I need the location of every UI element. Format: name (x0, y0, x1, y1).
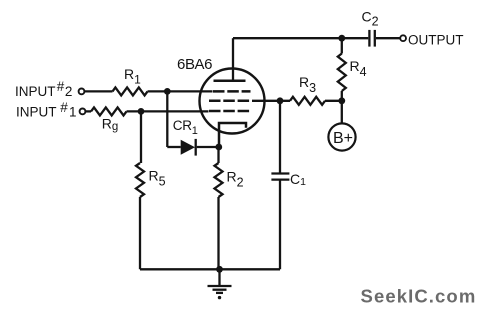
wire R3 to B+ node (325, 100, 342, 102)
node grid3 junction (138, 108, 145, 115)
wire ground rail (140, 268, 280, 270)
svg-text:B+: B+ (333, 130, 353, 147)
tube plate (214, 80, 246, 83)
diode CR1 (181, 140, 195, 155)
wire B+ lead (341, 101, 343, 124)
svg-text:OUTPUT: OUTPUT (408, 33, 464, 48)
tube grid2 (dashed) (209, 100, 249, 103)
node screen junction (277, 97, 284, 104)
node top junction (338, 35, 345, 42)
resistor R1 (113, 87, 148, 95)
wire C1 top lead (279, 101, 281, 174)
wire grid3 junction down to R5 (140, 111, 142, 163)
node cathode junction (215, 144, 222, 151)
wire top rail plate to C2 (233, 37, 368, 39)
terminal input1 (80, 109, 86, 115)
wire R4 bottom lead (341, 91, 343, 101)
tube cathode (219, 123, 246, 147)
resistor R2 (215, 163, 223, 197)
wire Rg to grid3 (127, 110, 209, 112)
ground (218, 269, 220, 286)
wire grid2 to screen node (252, 100, 290, 102)
wire R5 bottom to rail (139, 197, 141, 269)
node grid1 junction (164, 88, 171, 95)
node ground junction (216, 266, 223, 273)
capacitor C1 (271, 172, 289, 174)
wire input2 lead (85, 90, 113, 92)
wire R2 bottom to rail (217, 197, 219, 269)
resistor R4 (338, 54, 346, 92)
wire R1 to grid1 (148, 90, 213, 92)
wire CR1 anode lead (167, 146, 180, 148)
capacitor C2 (368, 30, 370, 47)
wire input1 lead (86, 110, 92, 112)
tube 6BA6 envelope (200, 69, 265, 134)
tube grid1 (dashed) (213, 90, 251, 93)
wire CR1 cathode lead (197, 146, 219, 148)
svg-text:6BA6: 6BA6 (177, 56, 213, 73)
svg-text:SeekIC.com: SeekIC.com (361, 285, 477, 306)
wire C2 to output (376, 37, 400, 39)
wire plate lead (232, 38, 234, 81)
node B+ junction (338, 97, 345, 104)
wire grid1 junction down to CR1 anode (166, 91, 168, 147)
wire cathode junction down to R2 (217, 147, 219, 163)
terminal input2 (79, 89, 85, 95)
resistor Rg (91, 107, 127, 115)
resistor R3 (290, 97, 325, 105)
tube grid3 (dashed) (209, 110, 249, 113)
wire C1 bottom lead (279, 180, 281, 270)
resistor R5 (136, 163, 144, 197)
terminal output (400, 35, 406, 41)
wire R4 top lead (341, 38, 343, 53)
power B+ (328, 123, 355, 150)
